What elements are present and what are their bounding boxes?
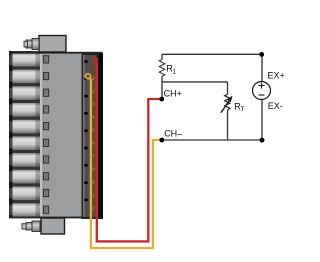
wire left vertical upper (161, 54, 163, 59)
svg-text:2: 2 (92, 89, 95, 94)
wire right vertical upper (261, 54, 263, 81)
node CH+ (159, 97, 164, 102)
node top right (259, 52, 264, 57)
bottom mounting block (41, 218, 65, 234)
resistor R1 (159, 60, 165, 77)
connector rib cylinders (13, 51, 41, 218)
excitation source circle (253, 82, 271, 100)
svg-text:EX-: EX- (268, 101, 283, 111)
svg-text:1: 1 (172, 69, 176, 76)
svg-text:CH+: CH+ (164, 89, 182, 99)
wire RT branch upper (227, 82, 229, 95)
connector module body (40, 52, 82, 218)
wire middle horizontal (162, 81, 228, 83)
wire left vertical lower (161, 76, 163, 99)
label CH+ (164, 89, 182, 99)
connector left end cap strip (9, 51, 13, 218)
label EX+ (268, 71, 285, 81)
label EX- (268, 101, 283, 111)
svg-text:4: 4 (92, 115, 95, 120)
connector slot holes (44, 56, 49, 214)
node bottom right (260, 138, 265, 143)
svg-text:6: 6 (92, 141, 95, 146)
svg-text:EX+: EX+ (268, 71, 285, 81)
top mounting block (39, 36, 66, 53)
top screw (24, 39, 39, 50)
thermistor RT arrow (221, 96, 233, 113)
wire top horizontal (162, 53, 262, 55)
label R1 (166, 64, 176, 76)
svg-text:CH–: CH– (164, 129, 182, 139)
svg-text:9: 9 (92, 180, 95, 185)
svg-text:T: T (241, 106, 245, 113)
connector bottom edge line (9, 217, 103, 219)
wire right vertical lower (261, 100, 263, 141)
svg-text:1: 1 (92, 76, 95, 81)
wire RT branch lower (227, 111, 229, 141)
svg-text:7: 7 (92, 154, 95, 159)
red signal wire CH+ (93, 58, 161, 242)
label CH- (164, 129, 182, 139)
terminal screw dots (84, 60, 88, 201)
wire bottom horizontal (162, 139, 262, 141)
svg-text:1: 1 (92, 193, 95, 198)
bottom screw (22, 221, 40, 232)
svg-text:5: 5 (92, 128, 95, 133)
connector top edge line (9, 52, 103, 54)
terminal panel (82, 53, 104, 219)
thermistor RT (225, 95, 230, 111)
svg-text:3: 3 (92, 102, 95, 107)
node CH- (159, 138, 164, 143)
svg-text:8: 8 (92, 167, 95, 172)
label RT (234, 102, 245, 113)
schematic wires (162, 54, 262, 140)
svg-text:2: 2 (92, 206, 95, 211)
terminal channel number marks (92, 76, 95, 211)
yellow signal wire CH- (86, 74, 162, 248)
